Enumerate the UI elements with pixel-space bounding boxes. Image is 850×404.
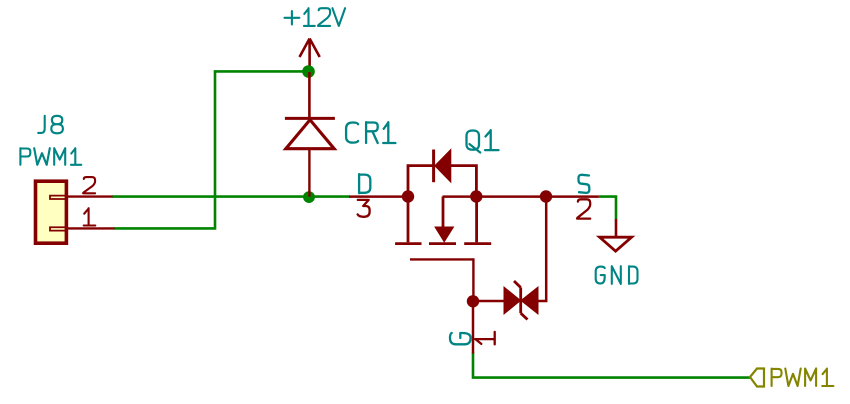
junction dot at source / zener branch (540, 190, 552, 202)
pin name D (359, 174, 370, 193)
global label PWM1 (750, 369, 764, 387)
value label PWM1 of J8 (20, 148, 81, 165)
net label +12V (285, 8, 346, 26)
reference label Q1 (467, 130, 499, 152)
pin number 2 of J8 (83, 177, 95, 193)
connector J8 (36, 181, 68, 243)
pin D/3 of Q1 (358, 174, 371, 217)
pin G/1 of Q1 (450, 301, 495, 353)
pin number 3 (358, 200, 370, 217)
reference label CR1 (346, 122, 395, 143)
wire pin 1 of J8 to +12V node (114, 71, 309, 228)
junction at drain node below CR1 (303, 191, 315, 203)
pin name S (579, 175, 590, 193)
pin S/2 of Q1 (577, 175, 590, 219)
zener diode across gate-source (TVS) (473, 197, 546, 320)
pin number 1 (rotated) (475, 332, 495, 345)
wire source pin to ground (599, 197, 616, 219)
transistor Q1 (P-MOSFET) (349, 150, 599, 302)
pin number 2 (577, 199, 590, 218)
junction at +12V node (302, 65, 315, 78)
global label text PWM1 (772, 369, 834, 387)
pin number 1 of J8 (84, 208, 96, 225)
diode CR1 (285, 72, 335, 197)
reference label J8 (38, 116, 63, 134)
ground symbol GND (600, 219, 632, 251)
junction dot at gate node (467, 295, 479, 307)
pin 1 of J8 (66, 227, 115, 229)
pin 2 of J8 (66, 195, 113, 197)
pin name G (rotated) (450, 333, 471, 344)
wire gate pin to PWM1 label (473, 353, 750, 378)
net label GND (596, 266, 638, 284)
junction dot at drain / body-diode anode (402, 190, 414, 202)
junction dot at body-diode cathode / source leg (470, 190, 482, 202)
power symbol +12V (300, 39, 320, 73)
wire pin 2 of J8 to drain node (112, 195, 350, 198)
